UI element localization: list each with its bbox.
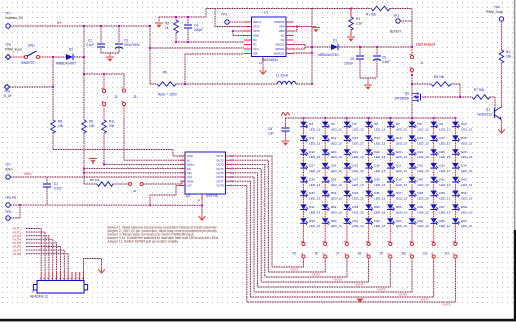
svg-text:PWM_Input: PWM_Input [5, 48, 22, 52]
svg-text:D27: D27 [309, 164, 315, 168]
LED D28 [322, 163, 330, 170]
svg-text:-OUT7: -OUT7 [420, 297, 429, 301]
svg-text:J6: J6 [314, 252, 318, 256]
LED D47 [387, 191, 395, 197]
LED D58 [452, 204, 460, 211]
svg-text:J9: J9 [379, 252, 383, 256]
svg-text:LED_13: LED_13 [396, 155, 407, 159]
svg-text:R1 62k: R1 62k [366, 13, 377, 17]
junction LED output [411, 46, 413, 48]
svg-text:INK: INK [253, 52, 258, 56]
LED D18 [452, 135, 460, 142]
svg-text:D38: D38 [374, 177, 380, 181]
svg-text:D56: D56 [418, 205, 424, 209]
LED D32 [409, 163, 417, 170]
LED D54 [365, 204, 373, 211]
svg-text:10k: 10k [58, 124, 64, 128]
svg-text:LED_13: LED_13 [374, 183, 385, 187]
svg-text:D53: D53 [352, 205, 358, 209]
svg-text:D23: D23 [396, 150, 402, 154]
wire Q1 emitter [501, 120, 503, 127]
svg-text:D40: D40 [418, 177, 424, 181]
svg-text:J1: J1 [420, 61, 424, 65]
svg-text:J7: J7 [31, 290, 35, 294]
junction C2 tap [100, 25, 102, 27]
LED D10 [452, 122, 460, 129]
junction pulldown tap [52, 56, 54, 58]
svg-text:10k: 10k [89, 124, 95, 128]
wire matrix column 6 [411, 118, 413, 242]
svg-text:TP8: TP8 [5, 210, 11, 214]
test point TP7 [6, 175, 10, 179]
wire gate run [425, 96, 460, 98]
svg-text:OUT4: OUT4 [216, 167, 224, 171]
LED D29 [344, 163, 352, 170]
wire TP6 ground run [11, 204, 203, 206]
svg-text:LED_13: LED_13 [418, 128, 429, 132]
junction R3 tap [350, 8, 352, 10]
svg-text:LED_13: LED_13 [461, 210, 472, 214]
svg-text:TP1: TP1 [5, 12, 11, 16]
wire U2 OUT1 nest [230, 156, 272, 267]
svg-text:C2: C2 [88, 39, 92, 43]
svg-text:Q2: Q2 [405, 92, 409, 96]
svg-text:OUT7: OUT7 [216, 179, 224, 183]
wire pin7 down to L1 node [184, 54, 186, 84]
svg-text:D25: D25 [439, 150, 445, 154]
svg-text:HEADER 12: HEADER 12 [30, 295, 48, 299]
wire VIN to U1 pin6 [150, 47, 244, 49]
jumper J3 pads [122, 89, 125, 92]
svg-text:LED_13: LED_13 [309, 183, 320, 187]
svg-text:D22: D22 [374, 150, 380, 154]
svg-text:D50: D50 [461, 191, 467, 195]
svg-text:J12: J12 [444, 252, 449, 256]
svg-text:R8: R8 [58, 120, 62, 124]
wire -OUT2 to header pin 2 [26, 232, 45, 272]
svg-text:D19: D19 [309, 150, 315, 154]
svg-text:LED_13: LED_13 [461, 169, 472, 173]
wire V+ vertical rail x84 [83, 26, 85, 120]
svg-text:J7: J7 [336, 252, 340, 256]
wire U2 OUT7 nest [230, 181, 250, 297]
svg-text:LED Output: LED Output [416, 43, 436, 47]
LED D64 [409, 218, 417, 225]
U2 pin stubs right [226, 155, 231, 157]
svg-text:TP2: TP2 [221, 13, 227, 17]
svg-text:SIN: SIN [187, 171, 192, 175]
capacitor C5 output [359, 47, 361, 55]
svg-text:-OUT5: -OUT5 [376, 287, 385, 291]
capacitor C1 [46, 177, 48, 183]
sheet right border [514, 0, 516, 230]
wire matrix column 2 [324, 118, 326, 242]
ground input caps [106, 57, 114, 62]
wire -OUT7 to header pin 7 [26, 250, 64, 272]
svg-text:LED_13: LED_13 [396, 183, 407, 187]
svg-text:D49: D49 [439, 191, 445, 195]
LED D46 [365, 191, 373, 197]
svg-text:LED_13: LED_13 [396, 128, 407, 132]
wire switch to D2 [40, 56, 52, 58]
svg-text:R9: R9 [89, 120, 93, 124]
LED D40 [409, 177, 417, 184]
svg-text:L1 35uH: L1 35uH [276, 74, 289, 78]
svg-text:D44: D44 [331, 191, 337, 195]
svg-text:LED_13: LED_13 [331, 141, 342, 145]
svg-text:LED_13: LED_13 [374, 224, 385, 228]
svg-text:-OUT8: -OUT8 [441, 302, 450, 306]
LED D39 [387, 177, 395, 184]
svg-text:HV9708: HV9708 [206, 194, 218, 198]
svg-text:V+: V+ [57, 21, 62, 25]
svg-text:LED_13: LED_13 [418, 141, 429, 145]
svg-text:OUT8: OUT8 [216, 184, 224, 188]
wire -OUT3 to header pin 3 [26, 236, 49, 272]
svg-text:LED_13: LED_13 [418, 210, 429, 214]
svg-text:-OUT8: -OUT8 [12, 252, 21, 256]
svg-text:LED_13: LED_13 [352, 141, 363, 145]
svg-text:D51: D51 [309, 205, 315, 209]
svg-text:NC: NC [281, 38, 285, 42]
svg-text:J8: J8 [358, 252, 362, 256]
ground GBP [312, 28, 320, 33]
junction VIN to U1 [149, 47, 151, 49]
U1 pin stubs right [286, 21, 294, 23]
capacitor C8 bus decouple [285, 118, 287, 127]
svg-text:J10: J10 [401, 252, 406, 256]
jumper J2 pads [102, 89, 105, 92]
svg-text:D16: D16 [418, 136, 424, 140]
svg-text:1uF: 1uF [268, 132, 274, 136]
node matrix column 6 top junction [411, 117, 413, 119]
resistor R3 [350, 9, 352, 18]
LED D56 [409, 204, 417, 211]
wire output caps common [360, 77, 377, 79]
wire bus Rt node [159, 16, 206, 18]
svg-text:LED_13: LED_13 [309, 197, 320, 201]
LED D7 [387, 122, 395, 129]
svg-text:GND: GND [187, 154, 193, 158]
wire boost feedback vertical [411, 9, 413, 48]
svg-text:TP3: TP3 [393, 14, 399, 18]
wire U2 OUT6 nest [230, 177, 254, 292]
svg-text:D47: D47 [396, 191, 402, 195]
wire L1 to SW vertical [296, 83, 312, 85]
svg-text:ISNS: ISNS [187, 179, 193, 183]
LED D6 [365, 122, 373, 129]
svg-text:IN: IN [187, 158, 190, 162]
svg-text:D28: D28 [331, 164, 337, 168]
LED D21 [344, 149, 352, 156]
wire R1 to output corner [390, 8, 412, 10]
wire R8 down [52, 133, 54, 150]
svg-text:LED_13: LED_13 [309, 141, 320, 145]
svg-text:LED_13: LED_13 [418, 183, 429, 187]
wire TP2 to U1 pin1 [229, 21, 244, 23]
inductor L1 [277, 81, 296, 84]
svg-text:J2: J2 [114, 95, 118, 99]
svg-text:R5 10k: R5 10k [90, 178, 100, 182]
resistor R6b [431, 82, 451, 87]
svg-text:D24: D24 [418, 150, 424, 154]
svg-text:LED_13: LED_13 [396, 141, 407, 145]
ground output caps [364, 85, 372, 90]
svg-text:TP7: TP7 [5, 163, 11, 167]
LED D60 [322, 218, 330, 225]
svg-text:R6: R6 [163, 71, 167, 75]
svg-text:LED_13: LED_13 [461, 128, 472, 132]
svg-text:MAX16834: MAX16834 [262, 58, 278, 62]
svg-text:D48: D48 [418, 191, 424, 195]
node matrix column 4 top junction [368, 117, 370, 119]
svg-text:D65: D65 [439, 219, 445, 223]
svg-text:LAT: LAT [187, 184, 192, 188]
wire R9 down [83, 133, 85, 173]
svg-text:Select: Select [187, 163, 195, 167]
wire R8 to U2 pin1 [53, 149, 173, 151]
wire -OUT8 to header pin 8 [26, 254, 68, 272]
U2 pin stubs left [180, 155, 185, 157]
jumper J9 pads column 5 [389, 242, 392, 245]
LED D45 [344, 191, 352, 197]
LED D57 [430, 204, 438, 211]
svg-text:D64: D64 [418, 219, 424, 223]
svg-text:D66: D66 [461, 219, 467, 223]
junction D2 out [83, 56, 85, 58]
svg-text:LED_13: LED_13 [331, 169, 342, 173]
resistor R9 on V+ rail [82, 120, 87, 133]
wire U1 GBP pins to ground [294, 26, 317, 28]
svg-text:D5: D5 [352, 122, 356, 126]
wire -OUT5 to header pin 5 [26, 243, 57, 272]
test point TP5 [5, 54, 10, 59]
LED D63 [387, 218, 395, 225]
ground C8 [282, 141, 290, 146]
LED D62 [365, 218, 373, 225]
svg-text:LED_13: LED_13 [418, 224, 429, 228]
wire matrix column 8 [454, 118, 456, 242]
svg-text:LED_13: LED_13 [374, 197, 385, 201]
LED D23 [387, 149, 395, 156]
wire J2 stub [103, 74, 105, 89]
wire matrix top bus [286, 117, 456, 119]
wire R11 to U2 [103, 133, 105, 164]
LED D65 [430, 218, 438, 225]
junction jumper feed [83, 73, 85, 75]
svg-text:LED_13: LED_13 [309, 210, 320, 214]
svg-text:LED_13: LED_13 [352, 197, 363, 201]
svg-text:VCC: VCC [253, 47, 259, 51]
LED D34 [452, 163, 460, 170]
test point TP3 [396, 19, 400, 23]
svg-text:LED_13: LED_13 [309, 128, 320, 132]
wire matrix column 1 [303, 118, 305, 242]
svg-text:VP12: VP12 [253, 25, 260, 29]
svg-text:Rpwr = 100Ω: Rpwr = 100Ω [158, 93, 177, 97]
wire matrix column 4 [368, 118, 370, 242]
svg-text:R6 10k: R6 10k [434, 75, 445, 79]
svg-text:EN: EN [187, 167, 191, 171]
svg-text:D2: D2 [69, 48, 73, 52]
wire cap commons to ground [101, 52, 119, 53]
wire R6b corner [451, 84, 460, 97]
svg-text:D31: D31 [396, 164, 402, 168]
svg-text:D13: D13 [352, 136, 358, 140]
svg-text:LED_13: LED_13 [331, 197, 342, 201]
ground tap mid [92, 161, 94, 165]
svg-text:D9: D9 [439, 122, 443, 126]
svg-text:200pF: 200pF [194, 28, 203, 32]
svg-text:D52: D52 [331, 205, 337, 209]
svg-text:SWC01: SWC01 [275, 47, 285, 51]
svg-text:LED_13: LED_13 [374, 169, 385, 173]
jumper J4 [113, 183, 128, 185]
wire TP8 join [11, 217, 21, 219]
op-amp U1 LED driver IC [252, 17, 287, 57]
wire to R8 [52, 57, 54, 120]
wire boost top [312, 8, 371, 10]
svg-text:LED_13: LED_13 [374, 141, 385, 145]
svg-text:J5: J5 [293, 252, 297, 256]
wire U2 OUT2 nest [230, 160, 268, 272]
svg-text:LED_13: LED_13 [396, 197, 407, 201]
svg-text:OUT2: OUT2 [216, 158, 224, 162]
svg-text:TP4: TP4 [494, 6, 500, 10]
svg-text:LED_13: LED_13 [309, 169, 320, 173]
svg-text:D60: D60 [331, 219, 337, 223]
svg-text:C4: C4 [194, 24, 198, 28]
switch SW1 [24, 55, 27, 58]
jumper J12 pads column 8 [454, 242, 457, 245]
capacitor C2 [100, 26, 102, 43]
svg-text:LED_13: LED_13 [439, 210, 450, 214]
capacitor C4 [187, 17, 189, 24]
wire TP5 to switch [11, 56, 25, 58]
test point TP8 [4, 84, 9, 89]
wire U1 pin8 to SW node [294, 52, 313, 54]
svg-text:LED_13: LED_13 [374, 128, 385, 132]
wire Q1 base run [460, 96, 472, 98]
LED D59 [300, 218, 308, 225]
resistor R11 [102, 120, 107, 133]
svg-text:R3: R3 [356, 17, 360, 21]
svg-text:10k: 10k [109, 124, 115, 128]
LED D48 [409, 191, 417, 197]
LED D55 [387, 204, 395, 211]
wire R7 to Q1 [490, 96, 495, 98]
svg-text:OUT3: OUT3 [216, 163, 224, 167]
LED D31 [387, 163, 395, 170]
svg-text:D18: D18 [461, 136, 467, 140]
svg-text:D45: D45 [352, 191, 358, 195]
svg-text:D8: D8 [418, 122, 422, 126]
wire column 6 return to -OUT6 [411, 258, 413, 261]
svg-text:D39: D39 [396, 177, 402, 181]
wire TP8 to pulldown node [10, 86, 53, 88]
svg-text:R11: R11 [109, 120, 115, 124]
shift register U2 [185, 152, 226, 194]
svg-text:D37: D37 [352, 177, 358, 181]
svg-text:R7 50k: R7 50k [474, 88, 485, 92]
wire jumper feed [84, 74, 124, 88]
ground Q1 [498, 127, 505, 133]
svg-text:D15: D15 [396, 136, 402, 140]
svg-text:PC: PC [253, 43, 257, 47]
junction C3 tap [118, 25, 120, 27]
svg-text:LED_13: LED_13 [331, 128, 342, 132]
LED D4 [322, 122, 330, 129]
svg-text:LED_13: LED_13 [439, 155, 450, 159]
resistor R6 Rpwr [150, 83, 157, 85]
svg-text:10k: 10k [506, 55, 512, 59]
node matrix column 5 top junction [389, 117, 391, 119]
svg-text:LED_13: LED_13 [439, 183, 450, 187]
LED D33 [430, 163, 438, 170]
svg-text:LED_13: LED_13 [352, 128, 363, 132]
svg-text:D58: D58 [461, 205, 467, 209]
LED D61 [344, 218, 352, 225]
svg-text:VP15: VP15 [253, 29, 260, 33]
ground Rt [158, 17, 160, 22]
wire U2 OUT4 nest [230, 169, 261, 282]
LED D20 [322, 149, 330, 156]
svg-text:D33: D33 [439, 164, 445, 168]
svg-text:D57: D57 [439, 205, 445, 209]
resistor R8 [51, 120, 56, 133]
wire R9 node to U2 pin5 [84, 172, 185, 174]
capacitor C6 output [376, 47, 378, 55]
svg-text:MBRA340T3G: MBRA340T3G [318, 53, 339, 57]
svg-text:LED_13: LED_13 [352, 224, 363, 228]
svg-text:D32: D32 [418, 164, 424, 168]
svg-text:LED_13: LED_13 [396, 210, 407, 214]
svg-text:J4: J4 [133, 189, 137, 193]
LED D35 [300, 177, 308, 184]
wire column 5 return to -OUT5 [389, 258, 391, 261]
wire TP3 tap [400, 20, 412, 22]
svg-text:0.1uF: 0.1uF [54, 187, 62, 191]
svg-text:LED_13: LED_13 [352, 183, 363, 187]
jumper J11 pads column 7 [432, 242, 435, 245]
svg-text:SWSPST: SWSPST [21, 61, 35, 65]
svg-text:D59: D59 [309, 219, 315, 223]
jumper J10 pads column 6 [410, 242, 413, 245]
LED D19 [300, 149, 308, 156]
LED D27 [300, 163, 308, 170]
svg-text:-OUT2: -OUT2 [311, 272, 320, 276]
svg-text:0.5uF: 0.5uF [382, 60, 390, 64]
wire column 4 return to -OUT4 [368, 258, 370, 261]
U2 bottom pin [201, 194, 203, 199]
svg-text:C1: C1 [54, 182, 58, 186]
LED D26 [452, 149, 460, 156]
svg-text:D20: D20 [331, 150, 337, 154]
wire U2 OUT8 nest [230, 185, 247, 302]
LED D17 [430, 135, 438, 142]
svg-text:LED_13: LED_13 [461, 155, 472, 159]
transistor Q2 MOSFET [412, 93, 425, 102]
svg-text:D30: D30 [374, 164, 380, 168]
svg-text:BOOST: BOOST [390, 30, 401, 34]
svg-text:OUT5: OUT5 [216, 171, 224, 175]
U1 pin stubs left [244, 21, 252, 23]
svg-text:D62: D62 [374, 219, 380, 223]
svg-text:2.2k: 2.2k [356, 22, 362, 26]
node matrix column 1 top junction [303, 117, 305, 119]
LED D3 [300, 122, 308, 129]
svg-text:R5: R5 [165, 22, 169, 26]
